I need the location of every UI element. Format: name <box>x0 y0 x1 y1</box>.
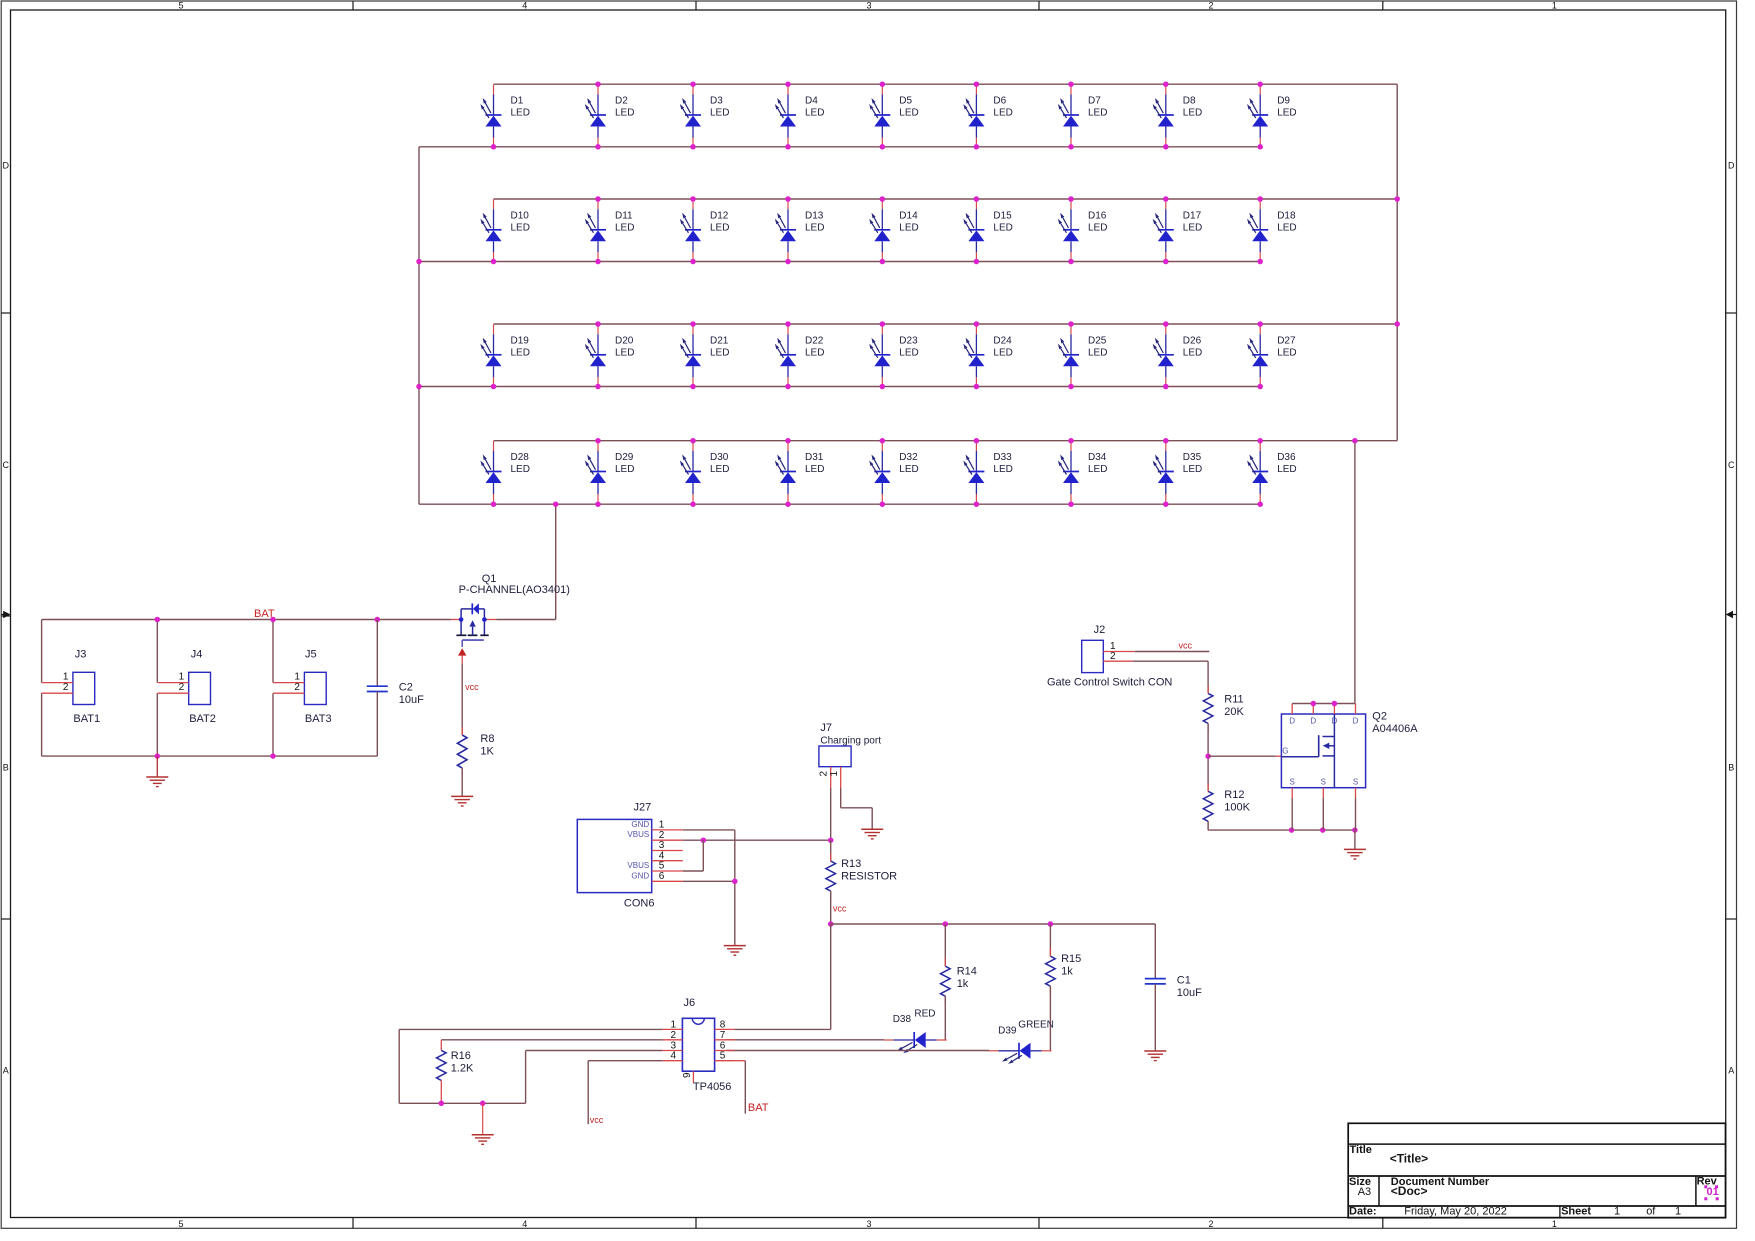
wire LED row 1 anode rail <box>494 83 1398 85</box>
junction dots row 4 anode rail <box>595 438 1263 444</box>
LED D9 <box>1247 85 1297 148</box>
resistor R11 20K <box>1203 685 1244 731</box>
wire J27 pin1 right <box>683 829 735 831</box>
junction vcc rail at R15 <box>1048 921 1054 927</box>
LED D17 <box>1153 199 1203 262</box>
svg-text:TP4056: TP4056 <box>693 1081 732 1093</box>
svg-text:<Doc>: <Doc> <box>1391 1184 1428 1198</box>
svg-text:LED: LED <box>710 464 729 475</box>
svg-text:D2: D2 <box>615 96 628 107</box>
LED D7 <box>1058 85 1108 148</box>
svg-text:D25: D25 <box>1088 335 1107 346</box>
svg-text:RED: RED <box>914 1008 935 1019</box>
svg-text:LED: LED <box>511 108 530 119</box>
svg-text:LED: LED <box>993 464 1012 475</box>
svg-text:D17: D17 <box>1183 210 1202 221</box>
junction left bus at row 2 <box>416 259 422 265</box>
svg-text:D36: D36 <box>1277 452 1296 463</box>
resistor R13 RESISTOR <box>826 853 897 899</box>
svg-text:LED: LED <box>1277 464 1296 475</box>
svg-text:A04406A: A04406A <box>1372 723 1418 735</box>
svg-text:D22: D22 <box>805 335 824 346</box>
svg-text:1: 1 <box>1552 1 1557 11</box>
svg-text:LED: LED <box>710 347 729 358</box>
svg-text:LED: LED <box>615 347 634 358</box>
svg-text:20K: 20K <box>1224 706 1244 718</box>
wire J5 pin2 drop <box>272 693 274 756</box>
svg-text:<Title>: <Title> <box>1390 1152 1428 1166</box>
wire Q1 drain to LED array <box>496 619 555 621</box>
wire J6 pin1 left <box>399 1029 662 1103</box>
svg-text:D33: D33 <box>993 452 1012 463</box>
svg-text:5: 5 <box>178 1219 183 1229</box>
wire VCC arrow to R8 <box>461 663 463 735</box>
wire source rail to ground <box>1354 830 1356 849</box>
svg-text:LED: LED <box>899 108 918 119</box>
svg-text:1: 1 <box>829 771 840 777</box>
junction source rail S1 <box>1289 827 1295 833</box>
wire LED row 3 anode rail <box>494 323 1398 325</box>
svg-text:GND: GND <box>631 820 649 829</box>
LED D4 <box>775 85 825 148</box>
svg-text:D5: D5 <box>899 96 912 107</box>
wire J5 pin1 drop <box>272 620 274 683</box>
junction dots row 3 anode rail <box>595 321 1263 327</box>
svg-text:R11: R11 <box>1224 694 1243 706</box>
svg-text:LED: LED <box>511 347 530 358</box>
wire vcc rail <box>831 923 1156 925</box>
connector J2 Gate Control Switch CON <box>1047 624 1172 688</box>
LED D34 <box>1058 441 1108 504</box>
junction ground rail at J4 <box>155 753 161 759</box>
border row ticks right <box>1726 313 1737 919</box>
junction row 4 anode rail to Q2 drain wire <box>1352 438 1358 444</box>
svg-text:D31: D31 <box>805 452 824 463</box>
border column ticks bottom <box>353 1218 1383 1229</box>
svg-text:D24: D24 <box>993 335 1012 346</box>
svg-text:LED: LED <box>1277 222 1296 233</box>
svg-text:D1: D1 <box>511 96 524 107</box>
svg-text:D: D <box>1353 717 1359 726</box>
wire bottom bus to ground <box>482 1103 484 1134</box>
svg-text:vcc: vcc <box>590 1115 604 1125</box>
junction vcc rail at R13 <box>828 921 834 927</box>
svg-text:LED: LED <box>615 222 634 233</box>
wire Q2 drain top rail <box>1292 703 1355 705</box>
svg-text:LED: LED <box>805 347 824 358</box>
junction gate divider node <box>1205 753 1211 759</box>
wire R15 down to D39 <box>1049 986 1051 1051</box>
svg-text:D9: D9 <box>1277 96 1290 107</box>
LED D36 <box>1247 441 1297 504</box>
svg-text:VBUS: VBUS <box>627 830 649 839</box>
wire battery bottom ground rail <box>42 755 378 757</box>
wire node to R13 <box>830 840 832 861</box>
svg-text:B: B <box>3 763 9 773</box>
svg-text:D8: D8 <box>1183 96 1196 107</box>
svg-text:D: D <box>3 161 10 171</box>
svg-text:R13: R13 <box>841 858 861 870</box>
svg-text:vcc: vcc <box>833 904 847 914</box>
junction J27 pin6 vertical <box>732 879 738 885</box>
LED D13 <box>775 199 825 262</box>
svg-text:1: 1 <box>294 671 300 682</box>
svg-text:Q2: Q2 <box>1372 711 1387 723</box>
wire J27 pin1/pin6 vertical to ground <box>734 830 736 946</box>
svg-text:Gate Control Switch CON: Gate Control Switch CON <box>1047 677 1172 689</box>
junction BAT rail at C2 <box>375 617 381 623</box>
svg-text:LED: LED <box>1183 464 1202 475</box>
LED D15 <box>963 199 1013 262</box>
wire LED row 2 anode rail <box>494 198 1398 200</box>
junction BAT rail at J5 <box>270 617 276 623</box>
wire vcc rail to C1 <box>1154 924 1156 979</box>
connector J7 Charging port <box>819 722 882 788</box>
svg-text:C2: C2 <box>399 682 413 694</box>
svg-text:D6: D6 <box>993 96 1006 107</box>
LED D16 <box>1058 199 1108 262</box>
svg-text:10uF: 10uF <box>399 694 424 706</box>
wire D39 cathode to J6 pin6 <box>726 1050 989 1052</box>
svg-text:2: 2 <box>179 682 185 693</box>
LED D28 <box>480 441 530 504</box>
svg-text:of: of <box>1646 1206 1656 1218</box>
junction dots row 1 cathode rail <box>491 144 1263 150</box>
svg-text:LED: LED <box>1183 347 1202 358</box>
svg-text:J5: J5 <box>305 649 317 661</box>
wire R11 to R12 <box>1207 723 1209 791</box>
svg-text:2: 2 <box>819 771 830 777</box>
svg-text:BAT1: BAT1 <box>73 713 100 725</box>
wire LED row 4 cathode rail <box>419 503 1260 505</box>
svg-text:D13: D13 <box>805 210 824 221</box>
wire D38 cathode to J6 pin7 <box>726 1039 884 1041</box>
svg-text:D21: D21 <box>710 335 729 346</box>
svg-text:J27: J27 <box>634 802 652 814</box>
svg-text:J3: J3 <box>75 649 87 661</box>
wire J7 pin2 down to R13 node <box>830 788 832 840</box>
svg-text:4: 4 <box>670 1051 676 1062</box>
svg-text:D30: D30 <box>710 452 729 463</box>
wire right bus connecting row anode rails <box>1396 84 1398 441</box>
svg-text:LED: LED <box>805 464 824 475</box>
wire J2 pin2 to R11 <box>1133 660 1208 662</box>
svg-text:BAT: BAT <box>748 1102 769 1114</box>
svg-text:Friday, May 20, 2022: Friday, May 20, 2022 <box>1404 1206 1507 1218</box>
svg-text:LED: LED <box>1088 347 1107 358</box>
svg-text:1: 1 <box>63 671 69 682</box>
LED D30 <box>680 441 730 504</box>
capacitor C1 10uF <box>1145 974 1202 999</box>
svg-text:LED: LED <box>993 108 1012 119</box>
LED D3 <box>680 85 730 148</box>
wire J6 pin8 right to vcc <box>735 1028 831 1030</box>
LED D8 <box>1153 85 1203 148</box>
ground at J7 <box>861 829 883 839</box>
svg-text:R16: R16 <box>451 1050 471 1062</box>
wire R12 to source rail <box>1207 821 1209 830</box>
wire J3 pin2 drop <box>41 693 43 756</box>
svg-text:B: B <box>1728 763 1734 773</box>
junction right bus at row 2 <box>1394 196 1400 202</box>
svg-text:D10: D10 <box>511 210 530 221</box>
resistor R15 1k <box>1046 948 1082 994</box>
svg-text:10uF: 10uF <box>1177 987 1202 999</box>
svg-text:D29: D29 <box>615 452 634 463</box>
svg-text:C: C <box>3 460 10 470</box>
LED D35 <box>1153 441 1203 504</box>
svg-text:RESISTOR: RESISTOR <box>841 871 897 883</box>
svg-text:G: G <box>1282 747 1288 756</box>
border center arrow right <box>1726 611 1733 618</box>
wire J27 pin5 up to pin2 <box>683 840 704 871</box>
svg-text:2: 2 <box>63 682 69 693</box>
junction row 4 cathode rail to Q1 wire <box>553 501 559 507</box>
svg-text:A: A <box>3 1066 9 1076</box>
ground battery rail <box>146 756 168 787</box>
junction dots row 3 cathode rail <box>491 384 1263 390</box>
svg-text:D27: D27 <box>1277 335 1296 346</box>
svg-text:4: 4 <box>522 1 527 11</box>
border center arrow left <box>3 611 10 618</box>
svg-text:LED: LED <box>899 347 918 358</box>
svg-text:LED: LED <box>1088 464 1107 475</box>
junction dots row 2 anode rail <box>595 196 1263 202</box>
svg-text:R14: R14 <box>957 966 977 978</box>
LED D19 <box>480 324 530 387</box>
wire from row 4 anode rail down to Q2 drain <box>1354 441 1356 704</box>
svg-text:1: 1 <box>670 1019 676 1030</box>
title block frame <box>1348 1123 1725 1217</box>
svg-text:J4: J4 <box>191 649 203 661</box>
IC J6 TP4056 <box>662 997 734 1093</box>
wire LED row 3 cathode rail <box>419 386 1260 388</box>
svg-text:1: 1 <box>1614 1206 1620 1218</box>
ground below C1 <box>1144 1051 1166 1061</box>
svg-text:5: 5 <box>720 1051 726 1062</box>
svg-text:Charging port: Charging port <box>820 736 881 747</box>
LED D24 <box>963 324 1013 387</box>
svg-text:2: 2 <box>1208 1219 1213 1229</box>
junction dots row 2 cathode rail <box>491 259 1263 265</box>
border row ticks left <box>1 313 10 919</box>
svg-text:J2: J2 <box>1094 624 1106 636</box>
junction bottom bus at ground <box>480 1101 486 1107</box>
wire J6 pin4 to vcc stub <box>588 1061 662 1125</box>
wire J7 pin1 to ground <box>841 788 873 829</box>
wire R13 to vcc rail <box>830 891 832 924</box>
svg-text:C: C <box>1728 460 1735 470</box>
svg-text:2: 2 <box>1208 1 1213 11</box>
wire LED row 2 cathode rail <box>419 261 1260 263</box>
wire R14 down to D38 <box>944 996 946 1040</box>
junction source rail S2 <box>1320 827 1326 833</box>
svg-text:LED: LED <box>1088 108 1107 119</box>
svg-text:R15: R15 <box>1061 953 1081 965</box>
wire vcc rail to R15 <box>1049 924 1051 956</box>
junction source rail S3 <box>1352 827 1358 833</box>
svg-text:C1: C1 <box>1177 974 1191 986</box>
junction bottom bus at R16 <box>439 1101 445 1107</box>
svg-text:D19: D19 <box>511 335 530 346</box>
connector J5 battery <box>273 649 332 726</box>
wire vcc rail to R14 <box>944 924 946 966</box>
LED D31 <box>775 441 825 504</box>
svg-text:D34: D34 <box>1088 452 1107 463</box>
svg-text:100K: 100K <box>1224 802 1250 814</box>
svg-text:6: 6 <box>659 871 665 882</box>
junction drain rail D2 <box>1311 701 1317 707</box>
svg-text:1: 1 <box>1552 1219 1557 1229</box>
svg-text:S: S <box>1353 778 1358 787</box>
svg-text:D4: D4 <box>805 96 818 107</box>
transistor Q1 P-CHANNEL(AO3401) <box>451 573 570 647</box>
border zone labels left <box>3 161 10 1076</box>
LED D2 <box>585 85 635 148</box>
resistor R16 1.2K <box>437 1050 474 1081</box>
svg-text:D16: D16 <box>1088 210 1107 221</box>
wire J4 pin1 drop <box>156 620 158 683</box>
svg-text:LED: LED <box>993 347 1012 358</box>
svg-text:D: D <box>1728 161 1735 171</box>
svg-text:LED: LED <box>511 222 530 233</box>
junction J27 pin2/pin5 <box>701 837 707 843</box>
resistor R14 1k <box>941 958 977 1004</box>
svg-text:D3: D3 <box>710 96 723 107</box>
svg-text:D39: D39 <box>998 1025 1017 1036</box>
svg-text:D7: D7 <box>1088 96 1101 107</box>
svg-text:D14: D14 <box>899 210 918 221</box>
LED D14 <box>869 199 919 262</box>
svg-text:D12: D12 <box>710 210 729 221</box>
svg-text:D20: D20 <box>615 335 634 346</box>
LED D12 <box>680 199 730 262</box>
svg-text:S: S <box>1290 778 1295 787</box>
LED D38 RED <box>884 1008 947 1053</box>
svg-text:LED: LED <box>1277 347 1296 358</box>
border zone labels top <box>178 1 1556 11</box>
svg-text:R8: R8 <box>480 733 494 745</box>
svg-text:LED: LED <box>805 108 824 119</box>
svg-text:BAT2: BAT2 <box>189 713 216 725</box>
wire J6 bottom bus <box>399 1102 525 1104</box>
ground below Q2 <box>1344 849 1366 859</box>
wire R16 to bottom bus <box>440 1080 442 1103</box>
LED D11 <box>585 199 635 262</box>
transistor Q2 A04406A <box>1281 704 1418 799</box>
svg-text:2: 2 <box>1110 651 1116 662</box>
svg-text:1k: 1k <box>957 978 969 990</box>
LED D20 <box>585 324 635 387</box>
svg-text:LED: LED <box>993 222 1012 233</box>
LED D23 <box>869 324 919 387</box>
svg-text:3: 3 <box>866 1 871 11</box>
junction left bus at row 3 <box>416 384 422 390</box>
LED D6 <box>963 85 1013 148</box>
wire from row 4 cathode rail down to Q1 drain <box>555 504 557 619</box>
svg-text:D11: D11 <box>615 210 633 221</box>
svg-text:D28: D28 <box>511 452 530 463</box>
title block text <box>1349 1144 1718 1218</box>
revision value 01 <box>1704 1185 1718 1200</box>
svg-text:LED: LED <box>615 464 634 475</box>
svg-text:LED: LED <box>710 222 729 233</box>
svg-text:LED: LED <box>899 222 918 233</box>
svg-text:9: 9 <box>682 1072 693 1078</box>
svg-text:D18: D18 <box>1277 210 1296 221</box>
LED D39 GREEN <box>989 1020 1054 1064</box>
ground below J6 bus <box>472 1135 494 1145</box>
power symbol VCC arrow at Q1 gate <box>458 648 466 663</box>
svg-text:LED: LED <box>899 464 918 475</box>
junction BAT rail at J4 <box>155 617 161 623</box>
ground below R8 <box>451 796 473 806</box>
svg-text:A: A <box>1728 1066 1734 1076</box>
svg-text:S: S <box>1321 778 1326 787</box>
LED D21 <box>680 324 730 387</box>
LED D27 <box>1247 324 1297 387</box>
svg-text:D23: D23 <box>899 335 918 346</box>
wire J2 pin1 to vcc <box>1135 651 1210 653</box>
svg-text:Sheet: Sheet <box>1561 1206 1591 1218</box>
wire LED row 1 cathode rail <box>419 146 1260 148</box>
connector J27 CON6 <box>577 802 683 910</box>
svg-text:Title: Title <box>1350 1144 1372 1156</box>
LED D32 <box>869 441 919 504</box>
svg-text:LED: LED <box>1183 222 1202 233</box>
wire divider node to Q2 gate <box>1208 755 1275 757</box>
wire LED row 4 anode rail <box>494 440 1398 442</box>
svg-text:J7: J7 <box>820 722 832 734</box>
wire J6 pin5 to BAT stub <box>735 1061 746 1114</box>
svg-text:BAT3: BAT3 <box>305 713 332 725</box>
svg-text:VBUS: VBUS <box>627 861 649 870</box>
wire C1 to ground <box>1154 984 1156 1051</box>
wire J4 pin2 drop <box>156 693 158 756</box>
LED D25 <box>1058 324 1108 387</box>
LED D1 <box>480 85 530 148</box>
LED D29 <box>585 441 635 504</box>
wire vcc rail down to J6 pin8 <box>830 924 832 1029</box>
svg-text:R12: R12 <box>1224 789 1244 801</box>
junction charging node at R13 <box>828 837 834 843</box>
svg-text:LED: LED <box>1183 108 1202 119</box>
svg-text:2: 2 <box>670 1030 676 1041</box>
wire J6 pin2 to R16 <box>441 1040 662 1051</box>
svg-text:D32: D32 <box>899 452 918 463</box>
wire Q2 source rail <box>1208 829 1355 831</box>
capacitor C2 <box>367 620 424 757</box>
svg-text:8: 8 <box>720 1019 726 1030</box>
svg-text:LED: LED <box>615 108 634 119</box>
svg-text:CON6: CON6 <box>624 898 655 910</box>
svg-text:P-CHANNEL(AO3401): P-CHANNEL(AO3401) <box>459 584 570 596</box>
junction drain rail D3 <box>1332 701 1338 707</box>
wire J27 pin2 to charging node <box>683 839 831 841</box>
svg-text:LED: LED <box>1088 222 1107 233</box>
LED D26 <box>1153 324 1203 387</box>
svg-text:Date:: Date: <box>1349 1206 1377 1218</box>
wire left bus connecting row cathode rails <box>418 147 420 504</box>
svg-text:D: D <box>1310 717 1316 726</box>
svg-text:4: 4 <box>522 1219 527 1229</box>
junction dots row 1 anode rail <box>595 81 1263 87</box>
wire J6 pin3 to bottom bus <box>526 1051 663 1104</box>
junction vcc rail at R14 <box>943 921 949 927</box>
svg-text:A3: A3 <box>1358 1186 1371 1198</box>
LED D5 <box>869 85 919 148</box>
LED D18 <box>1247 199 1297 262</box>
